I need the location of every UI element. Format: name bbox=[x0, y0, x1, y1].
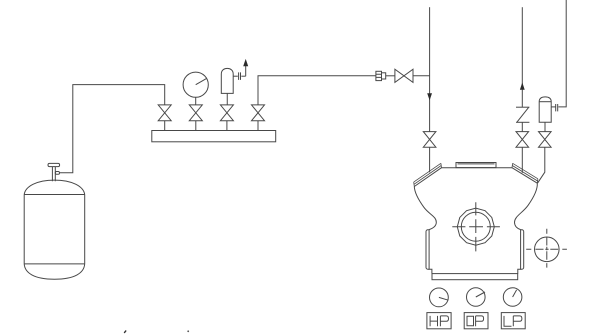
tank T1 bbox=[24, 180, 84, 279]
wire gauge stem bbox=[195, 97, 197, 105]
label OP bbox=[464, 313, 488, 329]
wire V4 to line junction bbox=[258, 76, 376, 105]
gauge HP bbox=[430, 288, 449, 307]
wire V4 stem bbox=[257, 121, 259, 131]
fitting on relief valve bbox=[233, 72, 246, 80]
flange band right bbox=[512, 163, 538, 183]
tank valve (T-handle) bbox=[48, 163, 60, 181]
wire tank to manifold valve V1 bbox=[60, 85, 165, 173]
valve V3 bbox=[220, 105, 233, 121]
eye outer ring (12-gon) bbox=[457, 208, 494, 245]
wire RV stem bbox=[226, 93, 228, 105]
bottom plate bbox=[432, 274, 518, 280]
gauge LP bbox=[503, 288, 522, 307]
flange band left bbox=[414, 163, 442, 186]
manifold bbox=[152, 131, 276, 142]
compressor body outline bbox=[414, 168, 537, 274]
label HP bbox=[427, 313, 451, 329]
valve V4 bbox=[252, 105, 265, 121]
valve VL3 bbox=[539, 132, 552, 148]
arrow down on line 1 bbox=[427, 93, 432, 100]
pressure gauge PI above V2 bbox=[183, 72, 208, 97]
dampener D1 bbox=[539, 97, 551, 122]
arrow up on line 2 bbox=[520, 82, 525, 89]
tab left bbox=[426, 230, 429, 269]
side port circle bbox=[535, 237, 560, 262]
fitting on dampener bbox=[551, 104, 558, 111]
valve VL2 bbox=[516, 132, 529, 148]
gauge OP bbox=[467, 288, 486, 307]
label LP bbox=[501, 313, 525, 329]
valve VL1 bbox=[423, 132, 436, 148]
wire to compressor bbox=[521, 147, 523, 173]
valve V1 bbox=[158, 105, 171, 121]
Z break symbol on line 2 bbox=[516, 107, 529, 122]
wire line 1 vertical bbox=[429, 7, 431, 131]
wire to compressor inlet bbox=[429, 147, 431, 172]
wire line 3 vertical from top bbox=[558, 0, 566, 107]
eye inner circle bbox=[461, 212, 490, 241]
nameplate on top bbox=[456, 163, 496, 168]
valve HV horizontal bbox=[395, 69, 413, 82]
side port centerlines bbox=[526, 229, 567, 268]
valve V2 bbox=[189, 105, 202, 121]
fitting F1 union bbox=[376, 71, 386, 80]
wire bbox=[386, 75, 395, 77]
eye centerlines bbox=[452, 202, 500, 251]
wire dampener stem bbox=[544, 122, 546, 131]
wire line 2 vertical bbox=[521, 7, 523, 107]
arrow vent up bbox=[243, 59, 248, 66]
wire V1 stem bbox=[164, 121, 166, 131]
tab right bbox=[520, 230, 523, 269]
wire vent line with arrow bbox=[245, 66, 247, 76]
wire bbox=[521, 122, 523, 131]
stray mark 2 bbox=[187, 330, 189, 332]
relief valve RV above V3 bbox=[221, 68, 233, 93]
wire V2 stem bbox=[195, 121, 197, 131]
wire to line 1 bbox=[413, 75, 430, 77]
stray mark 1 bbox=[124, 331, 126, 333]
wire V3 stem bbox=[226, 121, 228, 131]
wire to compressor bbox=[538, 147, 545, 183]
